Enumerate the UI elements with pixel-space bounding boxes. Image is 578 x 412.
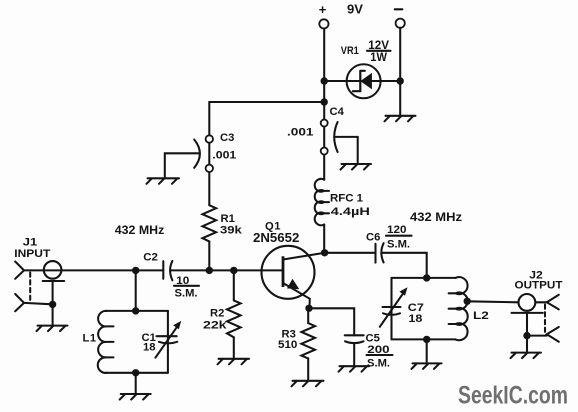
zener diode VR1 circle: [347, 64, 381, 98]
wire J1 shield drop: [52, 281, 54, 324]
fraction bar 120/S.M.: [386, 235, 412, 237]
terminal -: [396, 19, 405, 28]
svg-text:1W: 1W: [370, 52, 387, 64]
svg-text:L1: L1: [83, 333, 97, 345]
inductor L1: [98, 311, 114, 373]
svg-text:9V: 9V: [347, 3, 364, 17]
ground under C4: [341, 164, 372, 170]
capacitor C6 left plate: [374, 244, 376, 263]
node VR1 right junction: [397, 77, 404, 84]
svg-text:432 MHz: 432 MHz: [410, 210, 462, 224]
transistor Q1 base bar: [282, 256, 285, 287]
svg-text:C2: C2: [143, 251, 158, 263]
inductor RFC1: [315, 179, 329, 225]
wire J2 to upper chevron: [536, 301, 547, 303]
terminal +: [319, 19, 328, 28]
capacitor C2 right plate: [170, 261, 172, 280]
svg-text:INPUT: INPUT: [14, 248, 51, 260]
svg-text:.001: .001: [287, 127, 314, 139]
svg-text:C3: C3: [220, 132, 234, 144]
resistor R3: [301, 323, 315, 358]
node input tank bottom junction: [132, 369, 139, 376]
wire R3 to ground: [307, 358, 309, 379]
capacitor C4 feedthrough bottom circle: [321, 148, 328, 155]
fraction bar 12V/1W: [367, 50, 391, 52]
svg-text:432 MHz: 432 MHz: [115, 223, 165, 237]
wire input tank bottom: [106, 372, 168, 374]
capacitor C3 arc: [194, 140, 200, 168]
resistor R2: [227, 300, 241, 337]
capacitor C1 arrow: [155, 326, 177, 358]
wire base line left: [24, 269, 163, 271]
svg-text:18: 18: [408, 313, 422, 325]
svg-text:C6: C6: [366, 231, 380, 243]
svg-text:VR1: VR1: [341, 45, 359, 57]
wire R2 to ground: [233, 337, 235, 357]
node J1 shield junction: [49, 301, 56, 308]
node base junction R2: [230, 267, 237, 274]
wire output tank to ground: [426, 339, 428, 362]
ground under input tank: [120, 394, 151, 400]
connector J1 dashed body line: [29, 273, 31, 303]
node base junction R1: [206, 267, 213, 274]
svg-text:120: 120: [387, 224, 407, 236]
wire input tank top: [106, 310, 168, 312]
node top interstage junction: [321, 98, 328, 105]
label minus sign: [395, 8, 403, 10]
wire output tank bottom: [392, 338, 456, 340]
capacitor C3 feedthrough top circle: [206, 135, 213, 142]
svg-text:2N5652: 2N5652: [253, 230, 299, 245]
ground under R3: [292, 381, 324, 387]
connector J1 circle: [44, 261, 62, 279]
capacitor C7 top plate: [383, 306, 401, 308]
capacitor C3 feedthrough bottom circle: [206, 165, 213, 172]
wire emitter to R3: [307, 308, 309, 323]
wire J2 shield drop: [526, 313, 528, 352]
connector J2 circle: [519, 294, 536, 311]
capacitor C7 bottom plate: [383, 313, 400, 315]
capacitor C5 bottom plate: [345, 341, 364, 343]
transistor Q1 emitter arrow: [287, 279, 299, 290]
ground under output tank: [412, 363, 442, 369]
ground under J1: [37, 326, 68, 332]
node tank junction: [132, 267, 139, 274]
node VR1 left junction: [321, 77, 328, 84]
zener VR1 cathode bar: [353, 71, 365, 91]
connector J1 flange: [43, 280, 64, 282]
capacitor C4 arc: [334, 122, 337, 152]
capacitor C1 top plate: [157, 335, 177, 337]
transistor Q1 collector lead: [283, 253, 325, 260]
node output tank top junction: [423, 274, 430, 281]
ground under R2: [218, 359, 250, 365]
wire J2 lower chevron: [527, 335, 547, 337]
svg-text:C4: C4: [330, 106, 345, 118]
wire collector to C6: [325, 252, 376, 254]
svg-text:22k: 22k: [203, 319, 227, 331]
fraction bar 200/S.M.: [367, 354, 393, 356]
wire emitter to C5: [309, 308, 354, 335]
svg-text:J1: J1: [23, 237, 38, 249]
connector J1 upper chevron: [15, 262, 24, 279]
inductor L2: [449, 277, 468, 340]
svg-text:C5: C5: [366, 333, 380, 345]
svg-text:SeekIC.com: SeekIC.com: [458, 382, 568, 410]
capacitor C6 right plate: [381, 243, 383, 262]
svg-text:S.M.: S.M.: [175, 288, 198, 300]
connector J2 flange: [512, 312, 543, 314]
ground under - terminal: [385, 116, 416, 122]
svg-text:+: +: [319, 2, 327, 17]
wire R1 to base line: [208, 241, 210, 270]
svg-text:R1: R1: [221, 213, 235, 225]
wire RFC1 to collector node: [323, 225, 325, 253]
ground under C5: [339, 366, 370, 372]
wire base line right: [171, 269, 282, 271]
node input tank top junction: [132, 307, 139, 314]
capacitor C2 left plate: [162, 261, 164, 279]
svg-text:S.M.: S.M.: [367, 358, 390, 370]
svg-text:OUTPUT: OUTPUT: [515, 279, 564, 291]
node output tank bottom junction: [423, 336, 430, 343]
connector J2 upper chevron: [547, 295, 559, 310]
capacitor C5 top plate: [345, 334, 364, 336]
svg-text:S.M.: S.M.: [387, 239, 410, 251]
capacitor C4 feedthrough top circle: [321, 120, 328, 127]
wire C6 to output tank: [382, 253, 426, 278]
capacitor C7 arrow: [380, 293, 404, 327]
wire - rail down: [399, 28, 401, 116]
connector J1 lower chevron: [15, 294, 24, 311]
transistor Q1 emitter lead: [283, 283, 310, 308]
connector J2 dashed body line: [544, 305, 546, 334]
svg-text:L2: L2: [473, 310, 489, 322]
wire tank drop: [135, 270, 137, 311]
svg-text:39k: 39k: [220, 224, 243, 236]
wire +9V rail down: [323, 29, 325, 180]
node L2 tap: [464, 298, 471, 305]
node J2 shield junction: [523, 332, 530, 339]
connector J2 lower chevron: [547, 327, 559, 342]
svg-text:18: 18: [143, 341, 156, 353]
svg-text:R2: R2: [210, 308, 224, 320]
svg-text:.001: .001: [212, 149, 236, 161]
node emitter junction: [305, 305, 312, 312]
svg-text:4.4µH: 4.4µH: [331, 206, 370, 218]
wire input tank right side: [167, 311, 169, 373]
wire VR1 row: [324, 80, 400, 82]
wire to C3 branch: [209, 102, 324, 205]
wire L2 tap to J2: [467, 301, 518, 302]
wire C3 to ground: [165, 153, 199, 177]
svg-text:RFC 1: RFC 1: [330, 192, 363, 204]
capacitor C1 bottom plate: [159, 342, 177, 344]
wire output tank top: [392, 277, 456, 279]
wire output tank left side: [390, 278, 392, 340]
wire C4 to ground: [336, 137, 358, 163]
wire C5 to ground: [353, 343, 355, 365]
wire R2 drop: [233, 270, 235, 300]
resistor R1: [203, 205, 217, 241]
transistor Q1 circle: [262, 246, 315, 299]
ground under C3: [147, 178, 180, 184]
zener VR1 triangle: [360, 73, 372, 89]
wire J1 lower chevron to shield: [24, 303, 53, 304]
svg-text:510: 510: [278, 339, 297, 351]
fraction bar 10/S.M.: [174, 285, 199, 287]
ground under J2: [511, 353, 542, 359]
wire tank to ground: [135, 373, 137, 393]
node collector junction: [321, 249, 328, 256]
